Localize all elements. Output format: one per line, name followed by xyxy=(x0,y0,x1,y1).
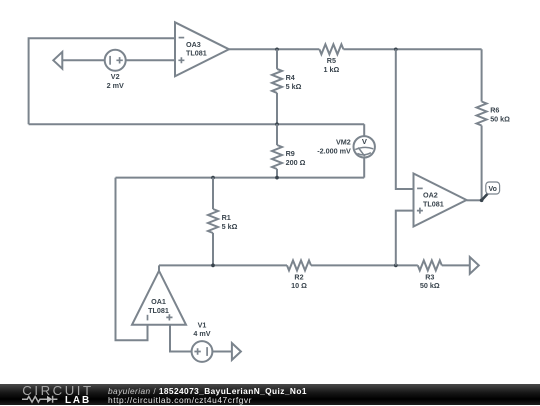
wire: V2 to OA3 non-inverting input xyxy=(126,59,175,61)
value label VM2 -2.000 mV xyxy=(317,146,351,155)
label R1 xyxy=(222,213,231,222)
wire: OA1 non-inverting input to V1 xyxy=(170,325,192,352)
value label R2 10 Ω xyxy=(291,281,307,290)
value label OA3 TL081 xyxy=(186,49,207,58)
footer bar xyxy=(0,384,540,405)
wire: VM2 top lead xyxy=(363,124,365,136)
wire: R9 top lead xyxy=(276,124,278,145)
svg-text:R3: R3 xyxy=(425,272,434,281)
junction: R9 bottom on rail xyxy=(275,176,279,180)
label R3 xyxy=(425,272,434,281)
svg-text:R6: R6 xyxy=(490,106,499,115)
wire: V1 to terminal xyxy=(212,351,232,353)
value label V1 4 mV xyxy=(193,329,210,338)
value label R4 5 kΩ xyxy=(286,82,302,91)
svg-text:R2: R2 xyxy=(294,272,303,281)
wire: VM2 bottom lead xyxy=(363,158,365,178)
svg-text:R5: R5 xyxy=(327,56,336,65)
svg-text:V1: V1 xyxy=(198,320,207,329)
wire: OA2 output xyxy=(467,199,482,201)
junction: OA2 output node xyxy=(480,198,484,202)
resistor R6 xyxy=(477,102,487,126)
value label OA1 TL081 xyxy=(148,306,169,315)
terminal flag (right of R3) xyxy=(470,257,479,274)
svg-text:200 Ω: 200 Ω xyxy=(286,158,306,167)
junction: OA2 non-inv branch on rail xyxy=(394,264,398,268)
svg-text:VM2: VM2 xyxy=(336,138,351,147)
wire: R4 top lead xyxy=(276,49,278,69)
wire: OA3 inverting input feedback (left loop) xyxy=(29,38,175,124)
label R4 xyxy=(286,73,295,82)
wire: OA3 output to R5 xyxy=(229,48,319,50)
svg-text:5 kΩ: 5 kΩ xyxy=(286,82,302,91)
footer title line xyxy=(108,386,307,396)
voltmeter VM2 xyxy=(354,136,375,157)
op-amp OA2 xyxy=(414,174,467,227)
svg-text:OA2: OA2 xyxy=(423,190,438,199)
junction: R1 top on rail xyxy=(211,176,215,180)
value label R6 50 kΩ xyxy=(490,114,510,123)
CircuitLab logo text LAB xyxy=(65,395,91,406)
svg-text:50 kΩ: 50 kΩ xyxy=(420,281,440,290)
CircuitLab logo text CIRCUIT xyxy=(22,383,93,398)
terminal flag (left, net of V2 minus) xyxy=(53,52,62,69)
svg-text:TL081: TL081 xyxy=(423,199,444,208)
svg-text:V2: V2 xyxy=(111,72,120,81)
svg-text:4 mV: 4 mV xyxy=(193,329,210,338)
wire: R2/R3 junction to OA2 non-inverting input xyxy=(396,211,414,266)
wire: R5 to top-right corner xyxy=(343,48,481,50)
wire: node rail y=177.6 (R9 bottom / R1 top / VM2 bottom / OA1 inv) xyxy=(116,177,365,179)
op-amp OA1 (output up) xyxy=(132,271,186,325)
wire: R4 bottom lead xyxy=(276,93,278,124)
wire: R1 top lead xyxy=(212,178,214,209)
svg-text:10 Ω: 10 Ω xyxy=(291,281,307,290)
label R2 xyxy=(294,272,303,281)
value label R1 5 kΩ xyxy=(222,222,238,231)
value label OA2 TL081 xyxy=(423,199,444,208)
resistor R1 xyxy=(208,209,218,233)
label R5 xyxy=(327,56,336,65)
junction: OA3 out / R4 top xyxy=(275,47,279,51)
wire: terminal to V2 xyxy=(62,59,104,61)
svg-text:TL081: TL081 xyxy=(186,49,207,58)
junction: R4 / rail y=124 / R9 xyxy=(275,122,279,126)
resistor R5 xyxy=(319,44,343,54)
resistor R9 xyxy=(272,145,282,169)
svg-text:Vo: Vo xyxy=(488,186,496,193)
svg-text:R9: R9 xyxy=(286,149,295,158)
wire: R9 bottom lead xyxy=(276,169,278,178)
wire: R2 to R3 xyxy=(311,264,418,266)
value label R9 200 Ω xyxy=(286,158,306,167)
wire: R6 bottom to OA2 output node xyxy=(481,126,483,201)
terminal flag (right of V1) xyxy=(232,343,241,360)
op-amp OA3 xyxy=(175,22,229,76)
junction: R1 bottom / OA1 out rail xyxy=(211,264,215,268)
label OA1 xyxy=(151,297,166,306)
label OA2 xyxy=(423,190,438,199)
wire: OA1 output stub xyxy=(158,265,160,270)
resistor R3 xyxy=(418,260,442,270)
wire: rail to OA1 inverting input xyxy=(116,178,148,341)
value label R5 1 kΩ xyxy=(324,65,340,74)
voltage source V1 xyxy=(192,341,213,362)
voltage source V2 xyxy=(105,50,126,71)
wire: top corner down to R6 xyxy=(481,49,483,101)
svg-text:-2.000 mV: -2.000 mV xyxy=(317,146,351,155)
wire: node rail y=124 (OA3 inv / R4 bottom / R9 top / VM2 top) xyxy=(29,123,365,125)
svg-text:2 mV: 2 mV xyxy=(107,81,124,90)
wire: R1 bottom lead xyxy=(212,233,214,265)
svg-text:TL081: TL081 xyxy=(148,306,169,315)
node Vo (named net flag) xyxy=(482,182,500,200)
wire: node rail y=265.4 (OA1 out / R1 bottom / R2) xyxy=(159,264,287,266)
label VM2 xyxy=(336,138,351,147)
resistor R2 xyxy=(287,260,311,270)
svg-text:R1: R1 xyxy=(222,213,231,222)
CircuitLab logo squiggle (resistor + diode) xyxy=(21,395,61,404)
label R9 xyxy=(286,149,295,158)
resistor R4 xyxy=(272,69,282,93)
svg-text:1 kΩ: 1 kΩ xyxy=(324,65,340,74)
wire: R3 to right terminal xyxy=(442,264,470,266)
wire: R5 junction to OA2 inverting input xyxy=(396,49,414,189)
label OA3 xyxy=(186,40,201,49)
label R6 xyxy=(490,106,499,115)
svg-text:50 kΩ: 50 kΩ xyxy=(490,114,510,123)
svg-text:5 kΩ: 5 kΩ xyxy=(222,222,238,231)
junction: R5 out / OA2 inv branch xyxy=(394,47,398,51)
value label V2 2 mV xyxy=(107,81,124,90)
label V1 xyxy=(198,320,207,329)
footer url line xyxy=(108,395,252,405)
value label R3 50 kΩ xyxy=(420,281,440,290)
label V2 xyxy=(111,72,120,81)
svg-text:R4: R4 xyxy=(286,73,295,82)
